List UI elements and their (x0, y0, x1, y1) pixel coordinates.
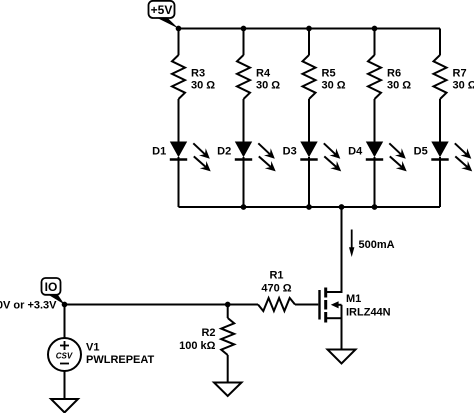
svg-text:R4: R4 (256, 67, 271, 79)
wire branch 3 upper (308, 29, 310, 56)
svg-text:R3: R3 (191, 67, 205, 79)
wire R2 top (227, 305, 229, 319)
resistor R4 (237, 55, 280, 99)
wire branch 2 upper (243, 29, 245, 56)
junction dot R2 (225, 302, 231, 308)
svg-text:500mA: 500mA (359, 239, 395, 251)
resistor R1 (258, 269, 295, 311)
svg-text:100 kΩ: 100 kΩ (179, 340, 216, 352)
wire V1 bottom (64, 371, 66, 399)
svg-text:D5: D5 (414, 145, 428, 157)
svg-text:0V or +3.3V: 0V or +3.3V (0, 299, 57, 311)
svg-text:D1: D1 (152, 145, 166, 157)
svg-text:V1: V1 (86, 342, 99, 354)
wire +5V top rail (179, 28, 441, 30)
wire R2 bottom (227, 355, 229, 383)
source V1 PWLREPEAT (48, 338, 155, 371)
wire gate net (65, 304, 259, 306)
wire branch 5 upper (439, 29, 441, 56)
junction dots bottom rail (241, 204, 378, 210)
transistor M1 IRLZ44N (320, 288, 391, 350)
svg-text:CSV: CSV (56, 352, 73, 361)
wire branch 1 middle (178, 99, 180, 142)
wire branch 2 lower (243, 157, 245, 207)
svg-text:D3: D3 (283, 145, 297, 157)
wire V1 top (64, 305, 66, 339)
svg-text:30 Ω: 30 Ω (387, 80, 411, 92)
LED D2 (217, 142, 276, 172)
junction dots top rail (241, 26, 378, 32)
wire branch 5 middle (439, 99, 441, 142)
svg-text:+5V: +5V (151, 3, 173, 17)
svg-text:IO: IO (45, 280, 58, 294)
wire branch 4 lower (374, 157, 376, 207)
svg-text:R6: R6 (387, 67, 401, 79)
node IO junction (62, 302, 68, 308)
wire branch 4 middle (374, 99, 376, 142)
wire branch 2 middle (243, 99, 245, 142)
svg-text:30 Ω: 30 Ω (453, 80, 474, 92)
svg-text:IRLZ44N: IRLZ44N (346, 307, 391, 319)
svg-text:D4: D4 (348, 145, 363, 157)
LED D4 (348, 142, 407, 172)
svg-text:30 Ω: 30 Ω (322, 80, 346, 92)
ground M1 (328, 350, 356, 364)
svg-text:M1: M1 (346, 293, 361, 305)
resistor R7 (434, 55, 474, 99)
wire branch 3 middle (308, 99, 310, 142)
ground V1 (51, 399, 78, 413)
svg-text:R1: R1 (269, 269, 283, 281)
svg-text:30 Ω: 30 Ω (191, 80, 215, 92)
svg-text:PWLREPEAT: PWLREPEAT (86, 354, 155, 366)
resistor R6 (368, 55, 411, 99)
IO input flag (42, 278, 65, 305)
LED D1 (152, 142, 211, 172)
resistor R5 (303, 55, 346, 99)
resistor R3 (172, 55, 215, 99)
LED D3 (283, 142, 342, 172)
+5V supply flag (149, 1, 179, 29)
LED D5 (414, 142, 473, 172)
wire branch 4 upper (374, 29, 376, 56)
ground R2 (214, 383, 242, 397)
wire branch 5 lower (439, 157, 441, 207)
current arrow 500mA (349, 230, 395, 258)
svg-text:R7: R7 (453, 67, 467, 79)
label 0V or +3.3V (0, 299, 57, 311)
wire branch 3 lower (308, 157, 310, 207)
node +5V junction (176, 26, 182, 32)
svg-text:470 Ω: 470 Ω (261, 282, 291, 294)
svg-text:R2: R2 (201, 327, 215, 339)
svg-text:30 Ω: 30 Ω (256, 80, 280, 92)
svg-text:D2: D2 (217, 145, 231, 157)
wire R1 to gate (295, 304, 318, 306)
wire branch 1 upper (178, 29, 180, 56)
wire branch 1 lower (178, 157, 180, 207)
resistor R2 (179, 318, 234, 355)
svg-text:R5: R5 (322, 67, 336, 79)
wire LED cathode rail (179, 206, 441, 208)
wire drain (327, 207, 342, 292)
